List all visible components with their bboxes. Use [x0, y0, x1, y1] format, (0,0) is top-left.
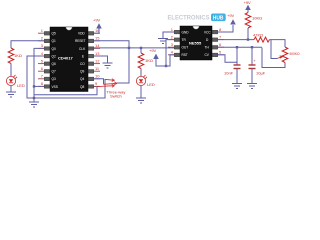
IC U2 pin stubs — [174, 30, 217, 56]
IC U2 pin numbers — [171, 27, 174, 55]
node CLK/R2 junction — [140, 47, 142, 49]
svg-text:Q9: Q9 — [80, 70, 84, 74]
svg-text:CO: CO — [80, 62, 85, 66]
svg-text:+9V: +9V — [244, 0, 252, 5]
wire C1 to ground — [236, 69, 238, 84]
node CLK/reset crossing — [128, 47, 130, 49]
resistor R4 47K horizontal — [254, 37, 270, 42]
svg-text:10: 10 — [95, 74, 100, 79]
wire Q8 pin9 to switch — [94, 85, 98, 87]
svg-text:500KΩ: 500KΩ — [290, 51, 300, 56]
IC U1 CD4017 body — [50, 27, 88, 92]
svg-text:+9V: +9V — [149, 48, 157, 53]
svg-text:Q4: Q4 — [80, 77, 84, 81]
node TR junction — [165, 65, 167, 67]
wire CLK pin14 to 555 OUT — [94, 47, 174, 49]
pin lines U2 (maroon stubs) — [168, 32, 224, 55]
node DIS junction — [247, 38, 249, 40]
svg-text:47KΩ: 47KΩ — [253, 33, 263, 38]
svg-text:1KΩ: 1KΩ — [14, 53, 22, 58]
potentiometer RV1 500K — [282, 47, 288, 63]
svg-text:10nF: 10nF — [224, 71, 234, 76]
wire DIS pin7 to R3/R4 junction — [218, 39, 254, 41]
wire Q4 pin10 jog to switch — [94, 79, 104, 85]
node VSS junction — [33, 85, 35, 87]
ground 555 pin1 — [158, 39, 168, 44]
wire Q2 pin4 down to bus — [27, 56, 105, 98]
svg-text:+9V: +9V — [93, 18, 101, 23]
IC U1 pin stubs left — [44, 32, 49, 89]
IC U2 NE555 body — [180, 26, 212, 60]
svg-text:Q1: Q1 — [52, 39, 56, 43]
LED D2 — [136, 75, 147, 86]
svg-text:CLK: CLK — [79, 47, 86, 51]
IC U1 pin stubs right — [88, 32, 93, 89]
IC U2 pin names — [182, 30, 212, 57]
pin lines U1 left (maroon stubs) — [38, 33, 44, 86]
power +9V (R3 top) — [245, 5, 251, 10]
wire Q1 pin2 to R1 — [11, 41, 44, 48]
wire C2 top lead — [251, 47, 253, 64]
wire +9V to RST pin4 — [156, 55, 174, 66]
wire OUT net to R2 branch — [140, 48, 142, 53]
svg-text:12: 12 — [95, 58, 100, 63]
svg-text:10KΩ: 10KΩ — [252, 16, 262, 21]
svg-text:Q8: Q8 — [80, 85, 84, 89]
ground C2 — [247, 84, 257, 89]
wire VCC pin8 to +9V — [218, 25, 233, 32]
ground LED1 — [6, 92, 16, 97]
capacitor C2 10uF — [249, 65, 256, 69]
logo ELECTRONICS HUB — [168, 14, 226, 22]
IC U1 pin numbers — [41, 28, 44, 86]
wire R4 to pot — [270, 40, 286, 47]
wire pot bottom loop to TH net — [262, 48, 285, 68]
power +9V (4017) — [96, 23, 102, 28]
svg-text:NE555: NE555 — [189, 41, 202, 46]
svg-text:LED: LED — [17, 83, 25, 88]
svg-text:1KΩ: 1KΩ — [145, 58, 153, 63]
resistor R2 1K — [138, 53, 144, 69]
wire VSS pin8 join — [34, 85, 44, 87]
wire VDD pin16 to +9V — [94, 29, 99, 34]
svg-text:Q7: Q7 — [52, 70, 56, 74]
node TH/C1 junction — [236, 46, 238, 48]
svg-text:Switch: Switch — [110, 94, 122, 99]
ground C1 — [232, 84, 242, 89]
IC U1 pin names — [52, 32, 87, 89]
pin lines U1 right (maroon stubs) — [94, 33, 100, 86]
svg-text:E: E — [82, 54, 84, 58]
wire LED2 to ground — [140, 86, 142, 98]
svg-text:13: 13 — [95, 51, 100, 56]
svg-text:VCC: VCC — [204, 30, 211, 34]
wire TH pin6 net — [218, 46, 262, 48]
wire C1 top lead — [236, 47, 238, 64]
power +9V (555 VCC) — [230, 19, 236, 24]
svg-text:RESET: RESET — [75, 39, 86, 43]
node C2 junction — [251, 46, 253, 48]
wire CV pin5 to C1 — [218, 55, 237, 63]
ground LED2 — [136, 98, 146, 103]
svg-text:CD4017: CD4017 — [58, 56, 73, 61]
resistor R3 10K vertical — [247, 28, 249, 40]
svg-text:OUT: OUT — [182, 46, 189, 50]
switch three-way arrows — [98, 79, 117, 88]
svg-text:RST: RST — [182, 53, 188, 57]
svg-text:Q0: Q0 — [52, 47, 56, 51]
LED D1 — [6, 75, 17, 86]
svg-text:TR: TR — [182, 38, 187, 42]
svg-text:Q6: Q6 — [52, 62, 56, 66]
svg-text:VSS: VSS — [52, 85, 58, 89]
svg-text:10µF: 10µF — [256, 71, 266, 76]
wire Q0 pin3 down to ground — [34, 48, 44, 102]
wire GND pin1 to ground — [163, 32, 174, 39]
svg-text:Q2: Q2 — [52, 54, 56, 58]
svg-text:LED: LED — [147, 82, 155, 87]
svg-text:+9V: +9V — [227, 13, 235, 18]
wire R2 to LED2 — [140, 69, 142, 77]
wire pot wiper leg — [271, 40, 277, 59]
wire E pin13 to ground — [94, 56, 108, 63]
svg-text:15: 15 — [95, 36, 100, 41]
wire TR pin2 down — [166, 40, 174, 66]
svg-text:Q3: Q3 — [52, 77, 56, 81]
svg-text:Q5: Q5 — [52, 32, 56, 36]
ground E pin13 — [103, 63, 113, 68]
svg-text:GND: GND — [182, 30, 190, 34]
svg-text:ELECTRONICS: ELECTRONICS — [168, 15, 211, 22]
capacitor C1 10nF — [234, 65, 241, 69]
node bus junction — [33, 97, 35, 99]
wire lower bus — [34, 86, 97, 94]
wire R1 to LED1 — [10, 64, 12, 77]
svg-text:VDD: VDD — [78, 32, 85, 36]
wire RESET pin15 to switch common — [94, 41, 129, 83]
ground left bus — [29, 102, 39, 107]
resistor R1 1K — [8, 48, 14, 64]
svg-text:TH: TH — [205, 46, 210, 50]
wire C2 to ground — [251, 69, 253, 84]
wire LED1 to ground — [10, 86, 12, 92]
svg-text:HUB: HUB — [213, 16, 224, 22]
